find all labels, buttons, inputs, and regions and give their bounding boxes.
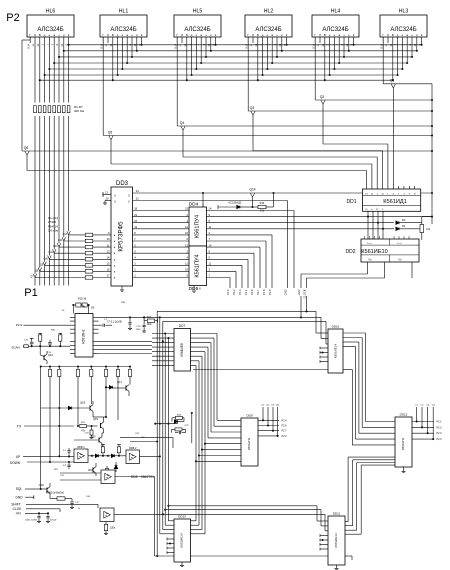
- svg-text:P2.3: P2.3: [282, 435, 288, 438]
- svg-text:HL2: HL2: [264, 9, 274, 15]
- svg-text:Q11: Q11: [48, 251, 53, 254]
- transistor chain Q7-Q14 КТ315 labels: [48, 216, 58, 232]
- svg-text:ж: ж: [200, 34, 202, 37]
- svg-text:Q13: Q13: [58, 239, 63, 242]
- svg-text:К561ЛН2: К561ЛН2: [82, 329, 86, 343]
- svg-text:К561ТЛ1: К561ТЛ1: [141, 475, 154, 479]
- input P2.9: [16, 323, 70, 327]
- svg-text:К561ИЕ14: К561ИЕ14: [334, 344, 338, 359]
- svg-text:9,14: 9,14: [312, 43, 315, 48]
- svg-text:D1: D1: [402, 224, 406, 228]
- DD7 left pin wires: [152, 332, 174, 365]
- DD1 input pins from drivers: [399, 186, 415, 189]
- svg-text:CLOK: CLOK: [13, 507, 23, 511]
- IC DD1 К561ИД1: [346, 189, 420, 211]
- IC DD2 К561ИЕ10: [345, 236, 419, 262]
- IC DD11 К561ИЕ14 counter: [328, 512, 345, 570]
- svg-text:Q15: Q15: [48, 353, 53, 357]
- DD3 left address pins: [107, 231, 116, 279]
- IC DD10 К561ИЕ14 counter: [328, 325, 343, 374]
- svg-text:P2: P2: [6, 12, 19, 24]
- capacitor C19 C20 1000 2x15В: [25, 513, 57, 522]
- svg-text:U: U: [128, 199, 130, 203]
- svg-text:О: О: [107, 33, 109, 37]
- svg-text:В: В: [39, 33, 41, 37]
- svg-text:DD11: DD11: [333, 512, 341, 516]
- svg-text:C7 0,1 2x16В: C7 0,1 2x16В: [107, 320, 122, 323]
- svg-text:АЛС324Б: АЛС324Б: [110, 27, 136, 33]
- DD11 to DD12 riser wires: [345, 457, 395, 534]
- diode D1: [396, 224, 422, 230]
- svg-text:К561ПУ4: К561ПУ4: [194, 254, 200, 277]
- pull-up resistor row R19-R25: [40, 365, 132, 381]
- resistor R26 220к: [104, 522, 116, 535]
- segment driver feed wires: [35, 43, 69, 274]
- transistor Q4: [177, 37, 433, 189]
- svg-text:АЛС324Б: АЛС324Б: [255, 27, 281, 33]
- svg-text:GND: GND: [284, 289, 288, 295]
- capacitor C10 1000: [136, 321, 146, 333]
- svg-text:Q20: Q20: [91, 435, 96, 439]
- svg-text:HL3: HL3: [399, 9, 409, 15]
- svg-text:P1.7: P1.7: [256, 289, 260, 295]
- resistor R19: [59, 333, 63, 346]
- svg-text:К561КП2: К561КП2: [247, 438, 251, 451]
- svg-text:P1.3: P1.3: [238, 289, 242, 295]
- svg-text:P1.4: P1.4: [226, 289, 230, 295]
- svg-text:R23(10к-56кОм): R23(10к-56кОм): [46, 492, 64, 495]
- resistor R23 10к-56к: [46, 492, 72, 501]
- misc component value labels: [51, 302, 145, 510]
- DD12 outputs to P2 port: [412, 405, 442, 442]
- transistor Q16: [39, 483, 50, 497]
- input DOWN: [10, 461, 74, 465]
- input +IN: [15, 512, 49, 516]
- input SCAN-: [11, 345, 70, 350]
- section label P1: [24, 287, 37, 299]
- transistor Q14: [249, 188, 255, 209]
- capacitor C15 0.1: [63, 448, 71, 458]
- gate DD8.3: [60, 470, 115, 484]
- svg-text:В: В: [392, 33, 394, 37]
- svg-text:КР573РФ5: КР573РФ5: [118, 221, 125, 252]
- svg-text:Q12: Q12: [53, 245, 58, 248]
- diode D6: [91, 454, 99, 457]
- svg-text:Т о б: Т о б: [396, 243, 402, 245]
- svg-text:АЛС324Б: АЛС324Б: [322, 27, 348, 33]
- svg-text:Q17: Q17: [117, 380, 122, 384]
- svg-text:P2.2: P2.2: [437, 426, 443, 429]
- svg-text:К561ИД1: К561ИД1: [383, 199, 407, 205]
- counter link bus B: [155, 505, 329, 557]
- DD11 input stubs: [320, 534, 328, 551]
- svg-text:P1.5: P1.5: [268, 289, 272, 295]
- svg-text:P2.4: P2.4: [282, 419, 288, 422]
- transistor Q12 chain: [53, 243, 111, 285]
- svg-text:D3: D3: [402, 218, 406, 222]
- transistor Q5: [103, 37, 433, 189]
- transistor Q20: [74, 433, 104, 448]
- svg-text:В: В: [186, 33, 188, 37]
- capacitor C15 input: [24, 338, 34, 346]
- transistor Q14 chain: [63, 231, 111, 285]
- transistor Q10 chain: [43, 256, 111, 286]
- transistor Q9 chain: [40, 262, 111, 286]
- capacitor C9: [128, 316, 132, 329]
- wires DD6 to DD7: [99, 340, 164, 353]
- transistor Q2: [315, 37, 433, 189]
- svg-text:О: О: [387, 33, 389, 37]
- svg-text:Q1: Q1: [390, 79, 395, 83]
- svg-text:U: U: [128, 193, 130, 197]
- svg-text:О: О: [252, 33, 254, 37]
- svg-text:Q18: Q18: [80, 401, 85, 405]
- svg-text:P1.1: P1.1: [244, 289, 248, 295]
- select lines to DD1 DD2: [207, 216, 434, 229]
- segment bus lines: [40, 45, 422, 80]
- input GND: [15, 495, 33, 499]
- svg-text:GND: GND: [15, 495, 23, 499]
- svg-text:300 Ом: 300 Ом: [74, 109, 84, 113]
- wire DD8.3 output to DD11: [115, 477, 155, 557]
- IC DD5 К561ПУ4: [189, 246, 207, 292]
- svg-text:Q16: Q16: [39, 483, 45, 487]
- resistor R17 100к: [143, 316, 157, 326]
- svg-text:R17: R17: [147, 316, 152, 319]
- wire Q20 collector link: [102, 437, 173, 448]
- IC DD7 К561ИЕ8: [174, 324, 191, 371]
- svg-text:1к: 1к: [78, 508, 80, 510]
- svg-text:Q14: Q14: [63, 233, 68, 236]
- DD2 clock and supply wires: [297, 262, 412, 317]
- DD3 ground pin: [120, 286, 124, 291]
- svg-text:DD8.1: DD8.1: [77, 445, 85, 449]
- svg-text:Т о б: Т о б: [366, 243, 372, 245]
- right supply rail: [431, 84, 433, 224]
- svg-text:47мкФ: 47мкФ: [50, 519, 57, 522]
- transistor Q8 chain: [35, 268, 111, 286]
- label DD8 К561ТЛ1: [131, 475, 154, 479]
- IC DD9 К561КП2: [241, 414, 258, 467]
- DD7 right pin wires to DD9: [191, 334, 242, 534]
- svg-text:В: В: [324, 33, 326, 37]
- svg-text:P2.4: P2.4: [437, 438, 443, 441]
- DD3 data pins to DD4 DD5: [133, 207, 190, 278]
- svg-text:ж: ж: [126, 34, 128, 37]
- P1 port staircase wires: [207, 211, 295, 295]
- svg-text:P2.9: P2.9: [16, 323, 23, 327]
- svg-text:SQL: SQL: [16, 487, 23, 491]
- svg-text:DD2: DD2: [345, 249, 355, 255]
- svg-text:DD8: DD8: [131, 475, 138, 479]
- DD10 right pins to DD12: [343, 333, 395, 445]
- svg-text:DD3: DD3: [116, 181, 129, 187]
- display drop wires and junctions: [39, 43, 423, 81]
- svg-text:5,6 кОм: 5,6 кОм: [48, 228, 58, 232]
- input UP: [16, 455, 74, 459]
- svg-text:P1.2: P1.2: [232, 289, 236, 295]
- resistor R28: [105, 466, 108, 477]
- svg-text:+IN: +IN: [15, 512, 21, 516]
- capacitor C7 0.1: [99, 320, 122, 326]
- svg-text:DD13: DD13: [178, 515, 186, 519]
- transistor Q18: [41, 401, 93, 418]
- bus risers left: [157, 311, 174, 556]
- svg-text:Q19: Q19: [93, 417, 98, 421]
- display HL4 АЛС324Б: [312, 9, 359, 49]
- svg-text:CLOCK: CLOCK: [303, 289, 307, 298]
- svg-text:ж: ж: [338, 34, 340, 37]
- svg-text:О: О: [34, 33, 36, 37]
- svg-text:1000 2x15В: 1000 2x15В: [25, 520, 37, 522]
- capacitor C18: [84, 425, 93, 439]
- svg-text:Q10: Q10: [43, 257, 48, 260]
- svg-text:Q4: Q4: [180, 121, 185, 125]
- DD4 DD5 right pins: [209, 207, 212, 278]
- svg-text:АЛС324Б: АЛС324Б: [37, 27, 63, 33]
- svg-text:DD8.2: DD8.2: [129, 446, 137, 450]
- transistor Q7 chain: [30, 274, 111, 286]
- svg-text:P2.1: P2.1: [437, 421, 443, 424]
- DD13 input stubs: [167, 538, 174, 555]
- riser x191: [191, 412, 193, 443]
- resistor R14 330: [254, 192, 275, 213]
- svg-text:Q14: Q14: [249, 188, 255, 192]
- DD13 ground pin: [180, 562, 184, 567]
- diode D3: [396, 218, 422, 224]
- svg-text:9,14: 9,14: [245, 43, 248, 48]
- svg-text:DD10: DD10: [332, 325, 340, 329]
- display HL2 АЛС324Б: [245, 9, 292, 49]
- svg-text:Q2: Q2: [320, 95, 325, 99]
- DD10 input stubs: [320, 347, 328, 364]
- capacitor C16 0.1: [63, 461, 71, 469]
- svg-text:P2.7: P2.7: [282, 430, 288, 433]
- svg-text:В: В: [112, 33, 114, 37]
- gate DD8.4: [100, 508, 164, 522]
- svg-text:P2.6: P2.6: [282, 425, 288, 428]
- transistor Q21: [88, 463, 96, 476]
- display HL5 АЛС324Б: [174, 9, 221, 49]
- svg-text:АЛС324Б: АЛС324Б: [184, 27, 210, 33]
- svg-text:R15-16: R15-16: [78, 297, 87, 301]
- svg-text:Q5: Q5: [108, 130, 113, 134]
- resistor array R1-R7 300 Ом: [34, 105, 85, 113]
- svg-text:U: U: [114, 199, 116, 203]
- transistor Q6: [22, 37, 433, 189]
- svg-text:SCAN-: SCAN-: [11, 345, 20, 349]
- diode D7: [107, 454, 115, 457]
- svg-text:ж: ж: [271, 34, 273, 37]
- resistor R21 47к: [80, 422, 98, 432]
- svg-text:330: 330: [260, 209, 265, 213]
- IC DD13 К561ИЕ14: [174, 515, 191, 563]
- IC DD3 КР573РФ5: [111, 181, 133, 286]
- svg-text:К561ИЕ10: К561ИЕ10: [361, 249, 388, 255]
- resistor R16 47к: [420, 217, 432, 240]
- svg-text:О: О: [319, 33, 321, 37]
- transistor Q1: [383, 37, 432, 189]
- gate DD8.2: [126, 446, 161, 464]
- transistor Q15: [40, 346, 53, 364]
- DD9 outputs to P2 port: [258, 405, 287, 438]
- DD11 right bottom stub: [345, 556, 352, 560]
- column drops: [78, 381, 130, 426]
- svg-text:DD1: DD1: [346, 199, 356, 205]
- oscillator cluster R24 Q22 R25: [154, 414, 189, 434]
- GND column: [284, 201, 288, 296]
- svg-text:HL6: HL6: [46, 9, 56, 15]
- svg-text:9,14: 9,14: [380, 43, 383, 48]
- svg-text:ж: ж: [406, 34, 408, 37]
- svg-text:9,14: 9,14: [27, 43, 30, 48]
- capacitor C17: [70, 499, 80, 509]
- DD10 left pin rows: [193, 333, 328, 370]
- svg-text:К561КП2: К561КП2: [401, 438, 405, 451]
- transistor Q11 chain: [48, 249, 111, 285]
- svg-text:ж: ж: [53, 34, 55, 37]
- svg-text:TX: TX: [17, 425, 22, 429]
- svg-text:P1.6: P1.6: [250, 289, 254, 295]
- IC DD12 К561КП2: [395, 413, 412, 473]
- DD4 DD5 left pin numbers: [185, 207, 188, 278]
- display HL6 АЛС324Б: [27, 9, 74, 49]
- transistor Q13 chain: [58, 237, 111, 285]
- transistor Q3: [248, 37, 433, 189]
- resistor R24 pull-up: [101, 445, 105, 457]
- svg-text:HL4: HL4: [331, 9, 341, 15]
- svg-text:Q3: Q3: [250, 106, 255, 110]
- wire Q19 to bus: [130, 440, 158, 442]
- display HL3 АЛС324Б: [380, 9, 427, 49]
- section label P2: [6, 12, 19, 24]
- svg-text:О: О: [181, 33, 183, 37]
- display HL1 АЛС324Б: [100, 9, 147, 49]
- svg-text:P1.8: P1.8: [262, 289, 266, 295]
- IC DD6 К561ЛН2: [70, 314, 99, 358]
- diode D8 vertical: [115, 462, 118, 472]
- DD11 left pin rows: [317, 521, 328, 556]
- svg-text:DD12: DD12: [400, 413, 408, 417]
- transistor Q17: [105, 380, 130, 396]
- svg-text:P1: P1: [24, 287, 37, 299]
- svg-text:HL1: HL1: [119, 9, 129, 15]
- svg-text:1000: 1000: [136, 329, 142, 331]
- input SHIFT: [11, 502, 98, 508]
- svg-text:К561ИЕ14: К561ИЕ14: [334, 533, 338, 548]
- input SQL: [16, 487, 47, 491]
- resistor network R15 R16: [72, 297, 94, 314]
- svg-text:9,14: 9,14: [174, 43, 177, 48]
- svg-text:DD4: DD4: [189, 202, 199, 208]
- input CLOK: [13, 507, 60, 512]
- svg-text:АЛС324Б: АЛС324Б: [390, 27, 416, 33]
- svg-text:HL5: HL5: [193, 9, 203, 15]
- svg-text:КТ315: КТ315: [48, 220, 56, 224]
- svg-text:P2.3: P2.3: [437, 432, 443, 435]
- svg-text:DOWN: DOWN: [10, 461, 21, 465]
- IC DD4 К561ПУ4: [189, 192, 207, 246]
- svg-text:+12V: +12V: [297, 289, 301, 295]
- svg-text:К561ИЕ8: К561ИЕ8: [180, 343, 184, 357]
- svg-text:R14: R14: [260, 201, 265, 205]
- svg-text:Q6: Q6: [24, 146, 29, 150]
- input TX: [17, 425, 79, 429]
- DD1 output pins down: [367, 211, 384, 239]
- svg-text:SHIFT: SHIFT: [11, 502, 20, 506]
- keyboard column wires: [41, 367, 60, 490]
- resistor R18: [38, 333, 42, 346]
- svg-text:DD9: DD9: [246, 414, 252, 418]
- counter link bus A: [99, 311, 327, 344]
- svg-text:DD7: DD7: [179, 324, 186, 328]
- svg-text:К561ИЕ14: К561ИЕ14: [180, 533, 184, 548]
- svg-text:9,14: 9,14: [100, 43, 103, 48]
- transistor Q19: [93, 416, 107, 433]
- svg-text:КС156АД2: КС156АД2: [229, 201, 242, 205]
- svg-text:U: U: [114, 193, 116, 197]
- gate DD8.1: [74, 445, 126, 463]
- DD3 power pins 12 20 24 21: [103, 189, 433, 204]
- resistor R25 pull-up: [117, 445, 121, 457]
- svg-text:В: В: [257, 33, 259, 37]
- svg-text:UP: UP: [16, 455, 20, 459]
- svg-text:К561ПУ4: К561ПУ4: [194, 215, 200, 238]
- capacitor C14: [47, 340, 52, 354]
- diode КС156АД2: [218, 201, 254, 210]
